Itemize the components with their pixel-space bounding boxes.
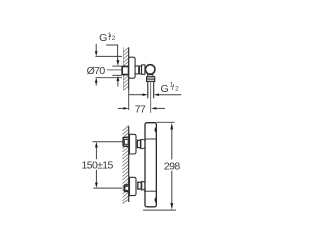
dimension 298 <box>143 122 180 210</box>
upper union cap <box>141 140 147 149</box>
outlet pipe walls <box>147 81 149 98</box>
upper wall nut (concealed fitting) <box>123 137 129 146</box>
lower handle arc <box>155 198 156 203</box>
svg-text:150±15: 150±15 <box>82 160 114 172</box>
svg-text:G: G <box>161 83 169 95</box>
wall hatch (front view) <box>122 126 128 204</box>
lower union cap <box>142 181 146 190</box>
svg-text:G: G <box>99 32 107 44</box>
valve block <box>142 65 145 74</box>
thread extension lines <box>112 65 121 67</box>
arrow down (G1/2 leader) <box>116 60 119 66</box>
neck under circle <box>147 75 153 77</box>
lower reference line <box>93 187 122 189</box>
thermostat body <box>145 123 156 207</box>
valve body circle (side view) <box>145 65 155 75</box>
label G1/2 (top) <box>99 32 116 44</box>
svg-text:Ø70: Ø70 <box>87 65 106 77</box>
dimension Ø70 <box>87 44 122 86</box>
svg-text:2: 2 <box>175 86 179 93</box>
lower union nipple <box>138 182 141 189</box>
dimension 77 <box>118 104 165 116</box>
svg-text:298: 298 <box>164 161 180 173</box>
pipe centre line / extension <box>150 81 152 113</box>
upper handle arc <box>155 128 156 133</box>
escutcheon flange (side view) <box>129 57 135 78</box>
union with rib <box>135 66 142 74</box>
wall hatch (top view) <box>123 47 128 90</box>
leader for G1/2 (top) <box>106 45 118 60</box>
arrow up (thread dim) <box>116 76 119 82</box>
upper boss line <box>145 138 156 140</box>
upper union nipple <box>137 140 140 147</box>
upper escutcheon <box>130 134 137 154</box>
ribbed outlet connector <box>147 77 155 82</box>
lower wall nut (concealed fitting) <box>124 185 130 192</box>
label G1/2 (right) <box>161 82 180 95</box>
wall face extension line (below wall) <box>128 90 130 110</box>
wall face line (top view) <box>128 47 130 90</box>
dimension 150±15 <box>82 142 114 188</box>
svg-text:2: 2 <box>112 35 116 42</box>
wall face line (front view) <box>128 126 130 202</box>
upper reference line <box>92 141 122 143</box>
svg-text:77: 77 <box>135 104 146 116</box>
lower boss line <box>144 190 156 192</box>
pipe thread dimension line (y=94.7) <box>129 94 143 96</box>
wall back line (top view) <box>122 47 124 90</box>
concealed fitting (square in wall, top view) <box>122 66 128 74</box>
lower escutcheon <box>130 177 137 195</box>
